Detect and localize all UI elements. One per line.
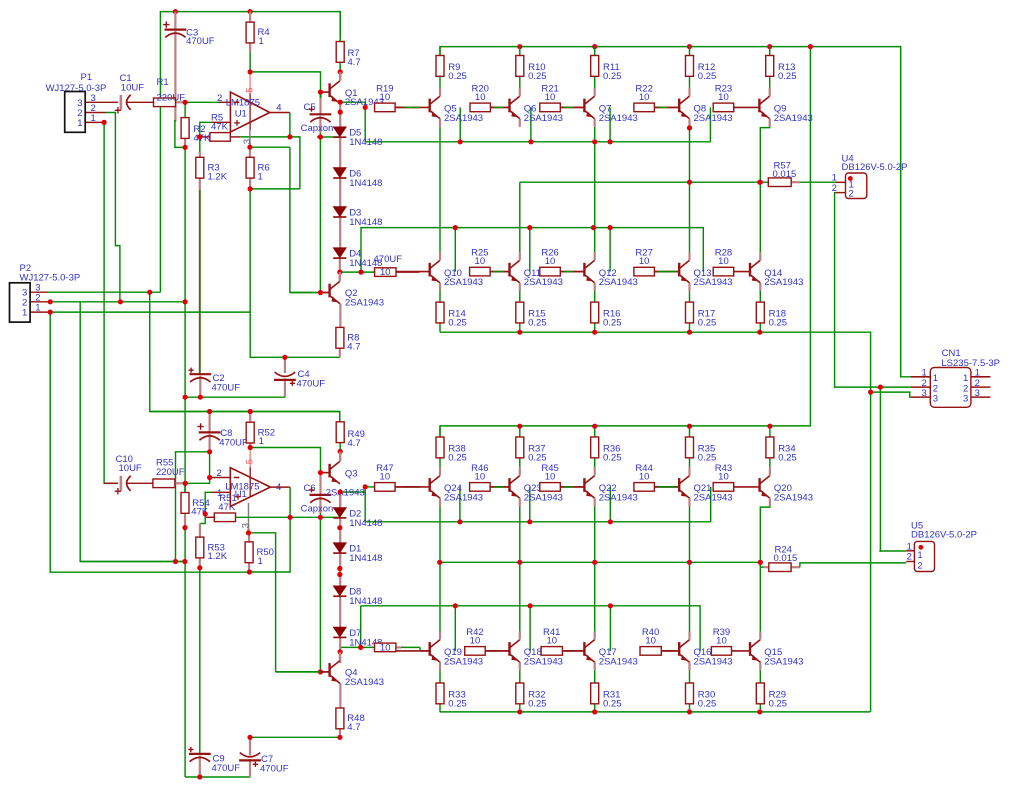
node R7 bottom	[338, 69, 343, 74]
wire D4 to Q2 node	[339, 258, 341, 280]
wire x870 down to rail 711	[870, 392, 872, 712]
wire +input ch2	[205, 492, 211, 512]
wire R54 leads	[184, 483, 186, 492]
transistor Q2	[319, 281, 340, 304]
C1 plus	[115, 107, 121, 113]
resistor R29	[756, 683, 764, 704]
wire 470UF-10 resistor to Q10	[396, 271, 419, 273]
svg-text:2: 2	[917, 560, 922, 571]
resistor R18	[756, 302, 764, 323]
wire R3 bottom to C2	[199, 178, 201, 374]
wire x149 drop	[150, 292, 340, 422]
wire D7 node to box	[340, 646, 374, 648]
svg-text:10: 10	[380, 92, 391, 103]
wire rail 227 drop	[361, 228, 703, 273]
svg-text:470UF: 470UF	[374, 254, 403, 265]
wire opamp2 out	[270, 486, 290, 488]
wire rail605 left drop	[360, 606, 362, 648]
svg-text:10: 10	[718, 471, 729, 482]
node R50 top	[246, 530, 251, 535]
transistor Q19	[396, 631, 440, 670]
svg-text:0.25: 0.25	[778, 71, 797, 82]
svg-text:2SA1943: 2SA1943	[444, 277, 483, 288]
wire R48 bottom	[339, 729, 341, 738]
op-amp U2	[230, 468, 270, 507]
diode D1	[333, 543, 346, 553]
U1 minus plus	[234, 101, 240, 103]
nodes rail 182	[687, 180, 692, 185]
node opamp out	[287, 134, 292, 139]
resistor R23	[713, 103, 734, 112]
resistor R46	[470, 483, 491, 492]
wire R52 leads	[249, 412, 251, 423]
wire P1 pin1 down	[85, 121, 104, 123]
resistor R3	[196, 157, 204, 178]
resistor R50	[245, 542, 253, 563]
Q3 stubs	[339, 452, 341, 462]
svg-text:C5: C5	[304, 102, 316, 113]
resistor R52	[246, 422, 254, 443]
resistor R4	[246, 22, 254, 43]
svg-text:2: 2	[849, 189, 854, 200]
wire C8 node left drop	[176, 452, 210, 562]
wire x50 drop	[50, 312, 249, 572]
wire P2 pin2 line	[30, 301, 50, 303]
svg-text:1: 1	[258, 171, 263, 182]
transistor Q3	[319, 461, 340, 484]
svg-text:10: 10	[380, 471, 391, 482]
svg-text:1N4148: 1N4148	[349, 137, 382, 148]
svg-text:0.25: 0.25	[778, 452, 797, 463]
node C9 bottom	[197, 774, 202, 779]
wire C3 bottom	[174, 31, 176, 122]
svg-text:0.25: 0.25	[528, 698, 547, 709]
resistor R16	[591, 302, 599, 323]
node R2 bottom	[183, 145, 188, 150]
svg-text:Capxon: Capxon	[301, 123, 334, 134]
transistor Q22	[560, 467, 594, 506]
svg-text:1N4148: 1N4148	[349, 217, 382, 228]
svg-text:0.015: 0.015	[773, 169, 797, 180]
wire Q20 collector jog	[760, 505, 770, 632]
transistor Q10	[396, 252, 440, 291]
svg-text:2SA1943: 2SA1943	[345, 677, 384, 688]
node dots top rail	[173, 9, 178, 14]
wire bank2 emitter resistors leads	[439, 283, 441, 302]
svg-text:LM1875: LM1875	[226, 97, 260, 108]
svg-text:10: 10	[470, 635, 481, 646]
CN1 left stubs	[911, 376, 930, 378]
wire pin3 lead	[249, 147, 251, 157]
svg-text:10: 10	[718, 92, 729, 103]
resistor R14	[436, 302, 444, 323]
diode D2	[333, 508, 346, 518]
svg-text:0.25: 0.25	[448, 452, 467, 463]
transistor Q24	[396, 467, 440, 506]
wire input pin2 ch2	[210, 477, 231, 479]
wire R52 to Q3 base	[250, 448, 320, 473]
resistor R57	[768, 178, 791, 187]
transistor Q21	[654, 467, 689, 506]
svg-text:DB126V-5.0-2P: DB126V-5.0-2P	[911, 529, 977, 540]
svg-text:2SA1943: 2SA1943	[524, 113, 563, 124]
capacitor C5	[310, 114, 332, 122]
wire C4 bottom to rail397	[284, 379, 286, 398]
node Q1 base	[318, 90, 323, 95]
resistor R43	[713, 483, 734, 492]
resistor R39	[711, 647, 731, 656]
transistor Q9	[734, 88, 770, 127]
svg-text:0.25: 0.25	[448, 698, 467, 709]
wire bank1 emitter cols	[439, 47, 441, 56]
U4 inner dot	[848, 176, 853, 181]
wire opamp out	[270, 112, 290, 114]
svg-text:2SA1943: 2SA1943	[599, 277, 638, 288]
resistor R10	[516, 56, 524, 77]
resistor R45	[540, 483, 561, 492]
resistor R48	[336, 708, 344, 729]
svg-text:47K: 47K	[211, 121, 229, 132]
resistor R30	[686, 683, 694, 704]
resistor R22	[634, 103, 655, 112]
wire Q2 collector to R8	[339, 303, 341, 327]
resistor R20	[470, 103, 490, 112]
svg-text:5: 5	[245, 459, 256, 464]
wire bank1 collector cols down	[439, 127, 441, 252]
wire R51 left	[204, 512, 206, 517]
svg-text:2SA1943: 2SA1943	[599, 113, 638, 124]
wire Q3 to D2	[339, 492, 341, 508]
resistor R13	[766, 56, 774, 77]
node R49 bottom	[338, 449, 343, 454]
svg-text:10: 10	[639, 256, 650, 267]
svg-text:4: 4	[276, 482, 281, 493]
wire C7 bottom	[249, 759, 251, 777]
wire rail 397	[185, 396, 285, 398]
resistor R8	[336, 327, 344, 348]
transistor Q12	[560, 252, 594, 291]
wire R2 top	[184, 102, 186, 117]
svg-text:2SA1943: 2SA1943	[524, 492, 563, 503]
transistor Q15	[732, 631, 761, 670]
resistor R33	[436, 683, 444, 704]
svg-text:0.25: 0.25	[698, 71, 717, 82]
node C8 nodes	[207, 409, 212, 414]
capacitor C10	[121, 476, 131, 491]
transistor Q18	[485, 631, 520, 670]
node R47 line	[363, 484, 368, 489]
svg-text:3: 3	[240, 523, 251, 528]
resistor R41	[541, 647, 562, 656]
transistor Q17	[562, 631, 594, 670]
capacitor C4	[274, 372, 296, 380]
svg-text:2SA1943: 2SA1943	[524, 277, 563, 288]
svg-text:3: 3	[975, 388, 980, 399]
resistor R44	[634, 483, 655, 492]
svg-text:U1: U1	[235, 108, 247, 119]
nodes rail 605	[453, 603, 458, 608]
svg-text:2SA1943: 2SA1943	[774, 492, 813, 503]
svg-text:0.25: 0.25	[603, 452, 622, 463]
Q1 stubs	[339, 72, 341, 81]
resistor R27	[634, 267, 655, 276]
resistor R31	[591, 683, 599, 704]
svg-text:10: 10	[475, 256, 486, 267]
svg-text:470UF: 470UF	[297, 379, 326, 390]
svg-text:0.25: 0.25	[698, 317, 717, 328]
nodes rail 227	[453, 225, 458, 230]
capacitor C2	[189, 374, 211, 382]
wire R3 top	[199, 137, 201, 152]
transistor Q8	[654, 88, 689, 127]
wire Q4 collector to R48	[339, 683, 341, 708]
CN1 right stubs	[971, 376, 991, 378]
svg-text:1.2K: 1.2K	[208, 551, 228, 562]
wire pin5 ch2	[249, 448, 251, 468]
connector CN1	[930, 368, 971, 408]
resistor 10 ch2	[375, 643, 396, 652]
svg-text:U1: U1	[235, 489, 247, 500]
diode D7	[333, 627, 346, 637]
svg-text:2SA1943: 2SA1943	[444, 113, 483, 124]
capacitor C9	[189, 754, 211, 762]
svg-text:10: 10	[475, 471, 486, 482]
svg-text:0.25: 0.25	[769, 698, 788, 709]
svg-text:220UF: 220UF	[157, 93, 186, 104]
resistor R51	[214, 513, 235, 522]
svg-text:10: 10	[639, 92, 650, 103]
node D1 chain dots	[337, 566, 342, 571]
svg-text:2SA1943: 2SA1943	[694, 656, 733, 667]
transistor Q11	[490, 252, 519, 291]
wire D chain D5-D4	[339, 138, 341, 248]
node Q8 collector	[687, 125, 692, 130]
svg-text:10: 10	[380, 267, 391, 278]
nodes rail 711	[517, 709, 522, 714]
svg-text:2SA1943: 2SA1943	[694, 113, 733, 124]
svg-text:5: 5	[245, 88, 256, 93]
wire R57 to U4 pin1	[791, 181, 800, 183]
wire x80 drop	[80, 302, 185, 562]
svg-text:0.25: 0.25	[603, 698, 622, 709]
svg-text:0.25: 0.25	[528, 71, 547, 82]
svg-text:2SA1943: 2SA1943	[599, 656, 638, 667]
resistor R55	[153, 479, 175, 488]
resistor R37	[516, 437, 524, 458]
node R54 bottom	[182, 525, 187, 530]
wire P2 pin3 line	[30, 291, 48, 293]
svg-text:470UF: 470UF	[212, 382, 241, 393]
green base joints bank1	[404, 106, 420, 108]
node R52 bottom	[248, 445, 253, 450]
nodes rail 332	[517, 330, 522, 335]
svg-text:R1: R1	[157, 77, 169, 88]
svg-text:2SA1943: 2SA1943	[599, 492, 638, 503]
wire C10 lead	[104, 482, 118, 484]
svg-text:0.015: 0.015	[774, 553, 798, 564]
wire rail-46 branch x810	[440, 47, 810, 437]
svg-text:3: 3	[242, 139, 253, 144]
wire P2 pin1 line	[30, 311, 50, 313]
svg-text:1: 1	[258, 556, 263, 567]
resistor R1	[154, 98, 176, 107]
svg-text:470UF: 470UF	[260, 764, 289, 775]
wire C2 bottom	[199, 376, 201, 397]
wire C8 bottom	[209, 434, 211, 452]
svg-text:0.25: 0.25	[603, 71, 622, 82]
resistor R40	[640, 647, 661, 656]
svg-text:4.7: 4.7	[347, 722, 360, 733]
resistor R12	[686, 56, 694, 77]
wire output rail 141 bank1	[365, 141, 710, 143]
resistor R32	[516, 683, 524, 704]
wire rail 182 to R57	[520, 181, 769, 183]
wire pin5 lead	[249, 72, 251, 94]
svg-text:1N4148: 1N4148	[349, 596, 382, 607]
wire D4 node to 470UF resistor	[340, 271, 375, 273]
svg-text:Capxon: Capxon	[301, 504, 334, 515]
wire P1 pin3 to C1	[85, 101, 118, 103]
base wire segments bank1	[395, 106, 419, 108]
resistor R35	[686, 437, 694, 458]
svg-text:1: 1	[259, 436, 264, 447]
resistor R36	[591, 437, 599, 458]
Q2 upper stub	[339, 272, 341, 281]
wire Q3 emitter node	[340, 491, 365, 493]
node R4 bottom	[248, 69, 253, 74]
node R6 bottom	[248, 186, 253, 191]
svg-text:2SA1943: 2SA1943	[694, 277, 733, 288]
svg-text:1.2K: 1.2K	[208, 171, 228, 182]
svg-text:10: 10	[546, 635, 557, 646]
svg-text:2SA1943: 2SA1943	[444, 492, 483, 503]
svg-text:2: 2	[832, 183, 837, 194]
transistor Q4	[319, 661, 340, 684]
node D7 bottom	[338, 649, 343, 654]
node rail411	[248, 409, 253, 414]
node CN1 pin2 line	[878, 385, 883, 390]
wire R55 right	[176, 482, 186, 484]
resistor R15	[516, 302, 524, 323]
svg-text:470UF: 470UF	[219, 437, 248, 448]
wire rail 562	[440, 561, 761, 563]
capacitor C6	[310, 495, 332, 503]
connector P1	[65, 92, 86, 133]
svg-text:10UF: 10UF	[119, 463, 142, 474]
resistor R11	[591, 56, 599, 77]
wire R53 bottom	[199, 558, 201, 568]
wire C4 stem	[284, 357, 286, 373]
node Q2 base	[318, 290, 323, 295]
wire ch2 bank2 base segments	[485, 650, 509, 652]
svg-text:DB126V-5.0-2P: DB126V-5.0-2P	[842, 162, 908, 173]
wire rail 561	[80, 561, 185, 563]
wire opamp +input	[200, 122, 213, 137]
node R1 out	[183, 100, 188, 105]
svg-text:0.25: 0.25	[448, 71, 467, 82]
wire ch2 bank1 collector cols	[439, 506, 441, 631]
wire bank2 base drops	[454, 228, 456, 272]
wire C6 bottom	[319, 496, 321, 513]
node C2 bottom	[198, 395, 203, 400]
svg-text:10: 10	[380, 643, 391, 654]
resistor R17	[686, 302, 694, 323]
node D2 bottom	[337, 525, 342, 530]
connector U4	[846, 173, 867, 199]
resistor R49	[336, 422, 344, 443]
svg-text:0.25: 0.25	[769, 317, 788, 328]
svg-text:10: 10	[718, 256, 729, 267]
wire R49 bottom	[339, 443, 341, 452]
svg-text:47K: 47K	[193, 133, 211, 144]
wire ch2 bank2 emitter leads	[439, 662, 441, 683]
node R24 left	[758, 560, 763, 565]
wire C6 top lead	[319, 473, 321, 495]
resistor R26	[540, 267, 561, 276]
svg-text:10: 10	[645, 635, 656, 646]
svg-text:2: 2	[907, 552, 912, 563]
wire R5 left	[200, 136, 210, 138]
wire R4 leads	[249, 12, 251, 23]
node P2 wires	[48, 299, 53, 304]
connector P2	[10, 283, 31, 322]
svg-text:3: 3	[963, 394, 968, 405]
wire D chain ch2	[339, 492, 341, 508]
svg-text:LS235-7.5-3P: LS235-7.5-3P	[941, 358, 1000, 369]
resistor R21	[540, 103, 561, 112]
wire rail 332	[440, 332, 871, 392]
wire R50 leads	[248, 533, 250, 542]
wire P1 pin2 net	[85, 112, 106, 114]
wire pin3 ch2	[248, 503, 250, 529]
svg-text:1: 1	[35, 303, 40, 314]
wire base drops ch2 bank2	[454, 606, 456, 651]
resistor R24	[769, 563, 791, 572]
wire R47 line	[365, 486, 374, 488]
svg-text:3: 3	[922, 388, 927, 399]
svg-text:470UF: 470UF	[212, 763, 241, 774]
svg-text:10: 10	[716, 635, 727, 646]
wire R53 top jog	[200, 513, 205, 523]
svg-text:C6: C6	[304, 483, 316, 494]
node R50 bottom	[247, 569, 252, 574]
svg-text:10: 10	[475, 92, 486, 103]
wire CN1 pin3 link	[871, 392, 911, 397]
resistor R19	[375, 103, 396, 112]
node R5 left	[197, 134, 202, 139]
wire rail 411	[150, 411, 340, 413]
svg-text:47K: 47K	[218, 502, 236, 513]
node R53 bottom	[197, 565, 202, 570]
nodes rail 426	[517, 424, 522, 429]
svg-text:4.7: 4.7	[348, 438, 361, 449]
node U2 out	[288, 515, 293, 520]
svg-text:1: 1	[91, 113, 96, 124]
wire +V top rail	[160, 12, 340, 293]
svg-text:220UF: 220UF	[156, 467, 185, 478]
wire C9 bottom	[199, 756, 201, 778]
wire output rail x250 down	[250, 189, 340, 357]
resistor R6	[246, 157, 254, 178]
svg-text:2SA1943: 2SA1943	[326, 488, 365, 499]
resistor R54	[181, 493, 189, 514]
svg-text:2SA1943: 2SA1943	[524, 656, 563, 667]
wire base drops bank1	[459, 107, 461, 141]
wire pin3 line	[250, 146, 290, 148]
node R19 line	[363, 105, 368, 110]
wire R5 right feedback	[230, 136, 240, 138]
capacitor C3	[165, 30, 187, 38]
